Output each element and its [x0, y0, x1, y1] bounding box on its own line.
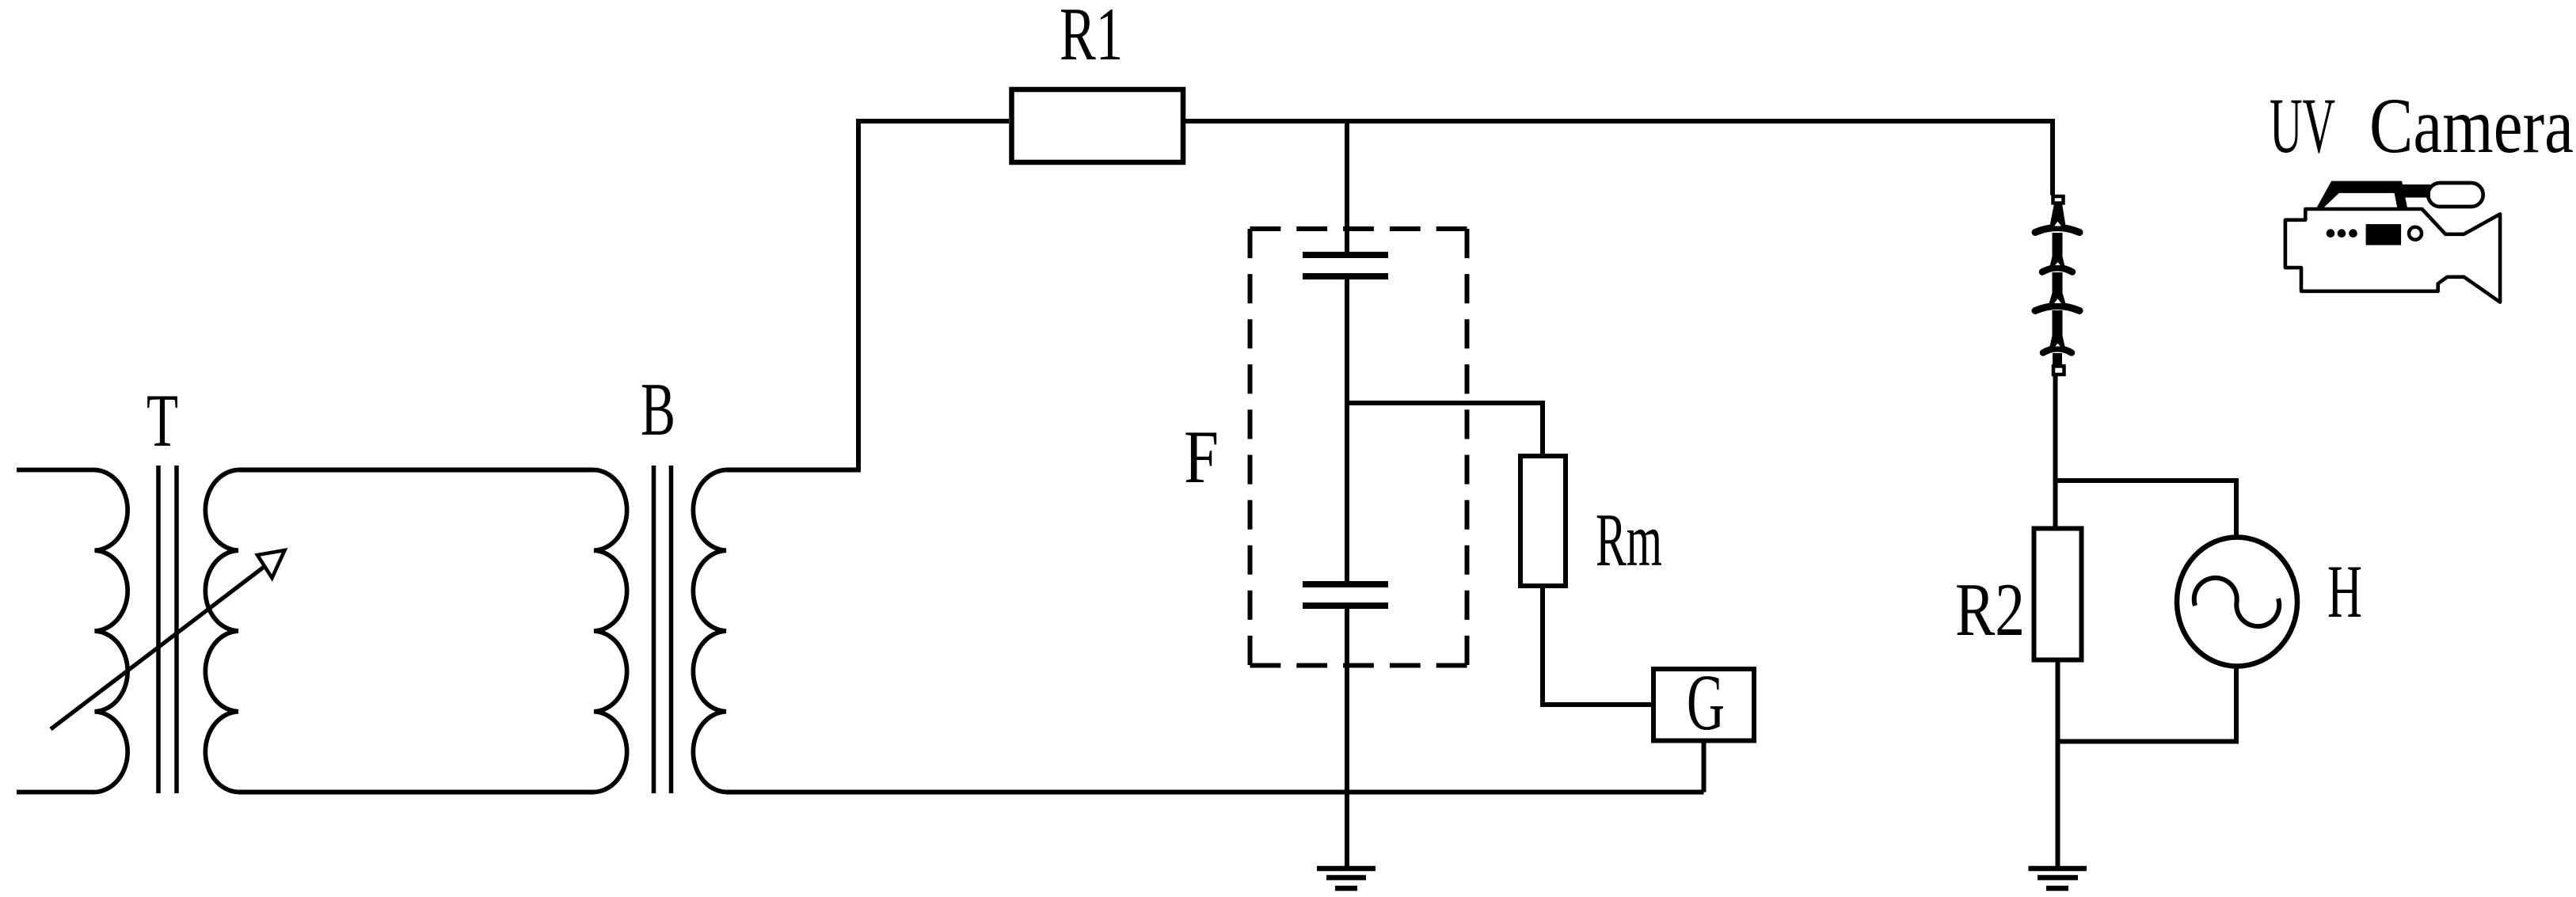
wire: racetrack top (T secondary to B primary) [238, 468, 594, 473]
wire: B secondary top to R1 [726, 121, 1009, 470]
camera detail circle [2409, 227, 2422, 240]
svg-text:Camera: Camera [2369, 82, 2574, 169]
svg-text:G: G [1687, 658, 1725, 747]
arrow shaft (variable transformer T) [51, 567, 264, 730]
dashed box F [1250, 226, 1467, 231]
transformer T primary winding [17, 470, 127, 792]
wire: junction to Rm [1347, 403, 1543, 456]
transformer B secondary winding [693, 470, 726, 792]
wire: R1 to insulator top [1183, 121, 2053, 196]
insulator stem flare 1 [2049, 203, 2066, 228]
transformer B core [654, 466, 672, 793]
camera viewfinder handle [2315, 181, 2408, 210]
insulator disc 2 [2042, 268, 2072, 272]
camera eyepiece pill [2428, 183, 2483, 207]
insulator cap square bottom [2053, 367, 2064, 375]
resistor R1 [1012, 89, 1184, 162]
bottom wire (B secondary to G) [726, 790, 1704, 795]
insulator stem 4 bottom [2053, 353, 2062, 366]
wire: H bottom to R2 branch [2058, 665, 2237, 742]
capacitor C1 [1303, 255, 1388, 276]
wire: node to H source [2056, 481, 2236, 539]
camera detail dots [2327, 229, 2335, 238]
wire: C1 to C2 [1345, 279, 1349, 581]
transformer T secondary winding [205, 470, 238, 792]
wire: R2 down to ground [2056, 660, 2060, 867]
sine wave inside H [2194, 578, 2280, 626]
insulator string [2035, 196, 2079, 374]
svg-text:T: T [146, 378, 178, 462]
insulator stem 2-3 [2053, 272, 2063, 298]
insulator stem 1-2 [2053, 233, 2063, 266]
svg-text:Rm: Rm [1596, 498, 1662, 582]
svg-text:R2: R2 [1955, 568, 2025, 652]
insulator disc 1 [2035, 228, 2079, 233]
camera eyepiece bar [2402, 184, 2430, 198]
instrument G box [1653, 669, 1754, 741]
AC source H [2177, 538, 2297, 667]
insulator disc 3 [2035, 306, 2079, 311]
ground (under R2) [2029, 868, 2087, 888]
wire: insulator down through node to R2 [2053, 376, 2058, 529]
svg-text:H: H [2327, 549, 2362, 633]
wire: G to bottom wire [1702, 741, 1707, 792]
wire: racetrack bottom [238, 790, 594, 795]
svg-text:F: F [1184, 415, 1219, 499]
resistor R2 [2034, 529, 2082, 660]
transformer B primary winding [594, 470, 627, 792]
camera body [2285, 209, 2500, 302]
transformer T core [158, 466, 177, 793]
camera detail rectangle [2366, 224, 2402, 245]
insulator cap square top [2053, 196, 2064, 203]
UV camera icon [2285, 181, 2500, 302]
insulator stem 3-4 [2053, 310, 2063, 339]
insulator disc 4 [2043, 348, 2072, 352]
svg-text:B: B [641, 367, 675, 451]
capacitor C2 [1303, 584, 1388, 606]
svg-text:UV: UV [2270, 82, 2335, 169]
ground (under F) [1317, 868, 1376, 888]
resistor Rm [1520, 456, 1566, 586]
wire: C2 down to ground [1345, 609, 1349, 866]
arrow head (variable transformer T) [257, 550, 285, 578]
wire: top node down to C1 [1345, 121, 1349, 252]
svg-text:R1: R1 [1060, 0, 1123, 76]
wire: Rm to G [1543, 586, 1653, 705]
